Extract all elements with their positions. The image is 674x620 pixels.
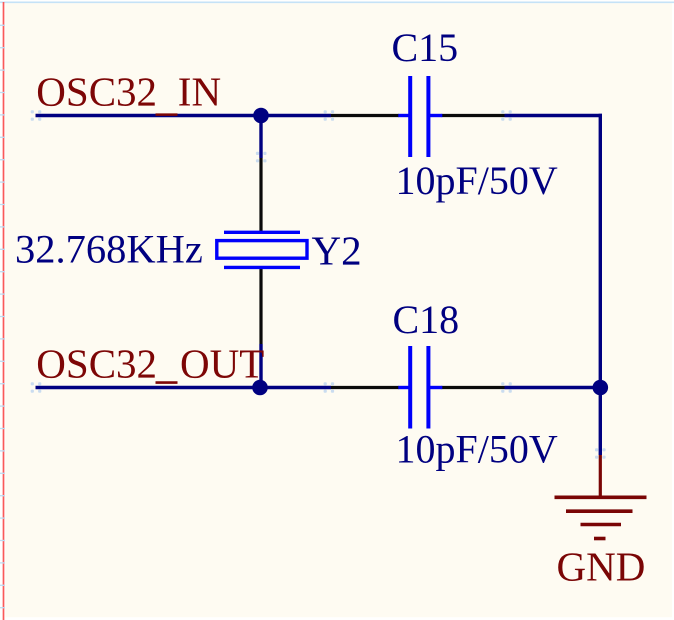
wire net OSC32_OUT right segment <box>505 386 601 389</box>
net label OSC32_OUT <box>36 341 264 387</box>
C18 right lead stub <box>430 386 443 389</box>
junction at OSC32_IN / crystal <box>253 108 269 124</box>
GND bar 2 <box>566 509 633 513</box>
Y2 top plate <box>224 231 300 234</box>
C15 left lead stub <box>398 114 409 117</box>
Y2 crystal body rectangle <box>217 241 307 259</box>
crystal Y2 <box>217 158 307 344</box>
C15 right plate <box>426 76 430 157</box>
GND bar 4 <box>594 537 606 541</box>
GND bar 1 <box>555 495 647 499</box>
capacitor C18 <box>331 346 505 429</box>
svg-text:C15: C15 <box>392 25 459 70</box>
wire net OSC32_OUT left segment <box>36 386 332 389</box>
svg-text:Y2: Y2 <box>312 227 362 273</box>
C15 pin 2 (right, black) <box>442 114 505 117</box>
svg-text:10pF/50V: 10pF/50V <box>396 158 558 203</box>
capacitor C15 <box>331 76 505 157</box>
C18 left plate <box>408 346 412 429</box>
wire net OSC32_IN right segment <box>505 114 603 117</box>
Y2 pin 2 (bottom, black) <box>259 269 262 345</box>
C15 left plate <box>408 76 412 157</box>
C18 left lead stub <box>398 386 409 389</box>
C18 pin 2 (right, black) <box>442 386 505 389</box>
C15 right lead stub <box>430 114 443 117</box>
Y2 pin 1 (top, black) <box>259 158 262 231</box>
C18 pin 1 (left, black) <box>331 386 399 389</box>
wire crystal bottom pin to junction <box>259 344 262 388</box>
svg-text:OSC32: OSC32 <box>36 341 157 387</box>
svg-text:32.768KHz: 32.768KHz <box>15 227 203 272</box>
GND bar 3 <box>581 523 622 527</box>
junction at GND vertical / OSC32_OUT <box>593 380 609 396</box>
Y2 bottom plate <box>224 266 300 269</box>
net label OSC32_IN <box>36 69 221 115</box>
svg-text:OSC32: OSC32 <box>36 69 157 115</box>
C18 right plate <box>426 346 430 429</box>
svg-text:10pF/50V: 10pF/50V <box>396 427 558 472</box>
wire net OSC32_IN left segment <box>36 114 332 117</box>
C15 pin 1 (left, black) <box>331 114 399 117</box>
svg-text:OUT: OUT <box>180 341 264 387</box>
wire junction to crystal top pin <box>259 116 262 159</box>
svg-text:C18: C18 <box>393 297 460 342</box>
GND stem <box>599 455 602 498</box>
svg-text:GND: GND <box>557 544 646 590</box>
junction at OSC32_OUT / crystal <box>252 380 268 396</box>
svg-text:IN: IN <box>178 69 221 115</box>
pin hotspot markers <box>31 110 606 459</box>
ground power port GND <box>555 455 647 539</box>
wire right vertical (caps to GND net) <box>599 114 602 455</box>
